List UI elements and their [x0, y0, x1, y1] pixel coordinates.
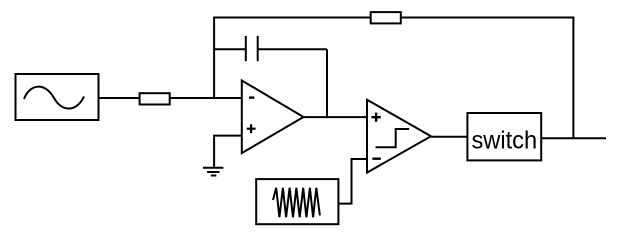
switch box	[467, 113, 541, 160]
op-amp U1	[242, 81, 304, 154]
wire R1 to op-amp inverting input	[170, 97, 242, 99]
wire top feedback left	[213, 17, 371, 19]
wire source to R1	[99, 97, 140, 99]
wire feedback right vertical	[572, 17, 574, 139]
wire op-amp U1 non-inverting input	[214, 136, 242, 167]
wire capacitor branch vertical to output	[326, 49, 328, 117]
wire U1 output to comparator	[304, 116, 368, 118]
wire switch output	[541, 137, 606, 139]
wire top feedback right	[401, 17, 574, 19]
wire inverting node to capacitor	[214, 48, 246, 50]
wire capacitor to output node	[258, 48, 327, 50]
resistor R1	[140, 93, 170, 104]
wire sawtooth source to comparator inverting input	[339, 159, 367, 204]
sine wave source box	[16, 74, 99, 120]
svg-text:switch: switch	[471, 127, 537, 155]
wire comparator output to switch	[431, 136, 467, 138]
ground	[203, 168, 224, 176]
resistor R2 (feedback)	[371, 12, 401, 23]
sawtooth source box	[256, 179, 338, 224]
capacitor C1	[246, 36, 258, 61]
comparator U2	[367, 100, 431, 173]
wire junction vertical at inverting node	[213, 18, 215, 99]
